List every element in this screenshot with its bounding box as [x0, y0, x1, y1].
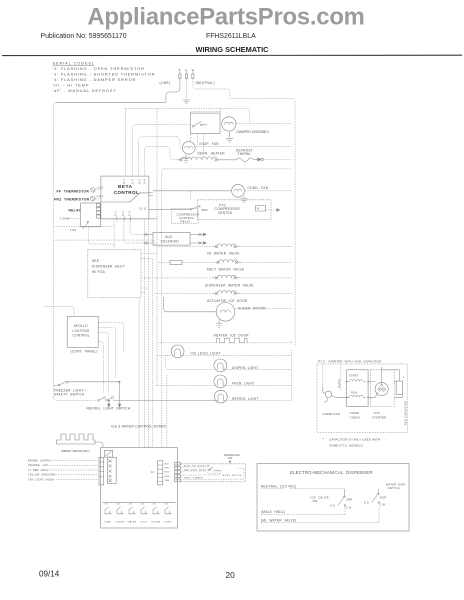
ptc inset dashed border: [317, 364, 407, 433]
lamp ice level light: [171, 345, 184, 358]
wire valve4 left: [153, 292, 213, 294]
wire aux in 2: [143, 242, 153, 244]
svg-text:N.O.: N.O.: [364, 501, 370, 504]
wire heater-ice left: [157, 342, 217, 344]
svg-text:COND. FAN: COND. FAN: [248, 186, 269, 190]
switch S2 crush: [116, 504, 125, 524]
svg-text:DISPENSER WATER VALVE: DISPENSER WATER VALVE: [205, 283, 254, 287]
overload protector OL1: [325, 391, 331, 397]
svg-text:'4' FLASHING - DAMPER ERROR: '4' FLASHING - DAMPER ERROR: [53, 77, 137, 82]
wire ice-level left feed: [157, 354, 175, 356]
pin labels J1 top: [124, 179, 146, 185]
svg-text:J-111: J-111: [96, 195, 103, 198]
svg-text:R: R: [257, 207, 259, 211]
wire cond-fan drop into compressor box: [190, 191, 192, 200]
svg-text:CBR: CBR: [346, 497, 352, 501]
svg-text:SWITCH: SWITCH: [388, 486, 400, 490]
switch S6 light: [164, 504, 172, 524]
wire left rail: [54, 102, 57, 397]
switch refrig door 2: [106, 399, 108, 401]
wire ptc left feed: [322, 364, 324, 386]
start device box: [347, 370, 368, 407]
wire refrig left to switches: [113, 400, 218, 402]
svg-text:G: G: [185, 68, 187, 72]
wire frzr left feed: [157, 384, 218, 386]
thermistor FRZ: [91, 196, 96, 201]
connector J1 strip: [99, 457, 104, 485]
svg-text:J-99: J-99: [70, 228, 77, 232]
svg-text:BLUE ICE DOOR SW.: BLUE ICE DOOR SW.: [184, 465, 211, 467]
svg-text:BROWN SUPPLY: BROWN SUPPLY: [28, 459, 51, 462]
svg-text:YELLOW (GROUND): YELLOW (GROUND): [28, 474, 56, 477]
switch refrig door 1: [98, 399, 100, 401]
pin labels J1 bottom: [116, 211, 132, 217]
wire cond fan left: [153, 190, 231, 192]
svg-text:P.T.C. STARTER WITH RUN CA: P.T.C. STARTER WITH RUN CAPACITOR: [318, 359, 382, 363]
power plug pin GROUND: [185, 68, 187, 79]
lamp dispenser light: [214, 359, 227, 372]
wire neutral dispenser: [261, 488, 344, 490]
wire damper switch drop: [197, 134, 199, 147]
solenoid coil water valve 1: [213, 244, 240, 247]
svg-text:(ML WATER VALVE): (ML WATER VALVE): [261, 518, 296, 522]
compressor control relay outline: [172, 209, 199, 224]
wire beta-feed 3 evap row: [138, 137, 176, 177]
wire male hndl: [261, 513, 345, 515]
svg-text:LIGHTING: LIGHTING: [73, 329, 90, 333]
svg-text:FFHS2611LBLA: FFHS2611LBLA: [206, 33, 256, 40]
resistor run winding: [350, 395, 364, 397]
MAIN-SCHEMATIC: [43, 68, 295, 448]
damper motor M1: [222, 117, 236, 131]
svg-text:TAN LIGHT DOOR SW.: TAN LIGHT DOOR SW.: [184, 468, 212, 471]
dispenser inset border: [257, 464, 409, 532]
svg-text:SW.: SW.: [228, 457, 233, 460]
connector J2 strip: [158, 461, 163, 485]
PTC-INSET: [317, 359, 407, 447]
svg-text:'0' FLASHING - OPEN THERMISTOR: '0' FLASHING - OPEN THERMISTOR: [53, 66, 145, 71]
wire auger left: [164, 297, 217, 312]
wire beta-feed 1: [125, 109, 127, 177]
svg-text:*: *: [323, 438, 325, 442]
solenoid coil water valve 2: [215, 260, 242, 263]
solenoid coil actuator ice door: [213, 291, 240, 294]
wire ground-pin stem: [185, 79, 187, 100]
svg-text:ICE & WATER CONTROL BOARD: ICE & WATER CONTROL BOARD: [111, 424, 167, 428]
beta internal partition: [101, 193, 149, 202]
switch compressor relay: [190, 208, 192, 210]
wire valve1 left: [157, 246, 213, 248]
connector edge pins: [174, 462, 180, 482]
wire neutral-pin to right bus: [193, 79, 295, 346]
wire beta bottom exit A: [113, 219, 115, 250]
svg-text:S6: S6: [165, 504, 169, 506]
connector J4 pins: [108, 457, 117, 483]
wire evap drop: [176, 137, 182, 148]
svg-text:'dF' - MANUAL DEFROST: 'dF' - MANUAL DEFROST: [53, 88, 117, 93]
lamp refrig light: [214, 390, 227, 403]
svg-text:TAN LIGHT (ADC): TAN LIGHT (ADC): [28, 479, 53, 482]
svg-text:(CONT. PANEL): (CONT. PANEL): [71, 350, 98, 354]
svg-text:S3: S3: [129, 504, 133, 506]
wire ice-level hook to dispen row: [166, 355, 214, 369]
svg-text:ICE LEVEL LIGHT: ICE LEVEL LIGHT: [191, 351, 221, 355]
svg-text:THERM.: THERM.: [238, 152, 252, 156]
svg-text:N.O.: N.O.: [330, 504, 336, 507]
DISPENSER-INSET: [257, 464, 409, 532]
svg-text:J1-4: J1-4: [145, 179, 147, 185]
wire heater-ice right to rail: [247, 340, 292, 343]
svg-text:WIRING SCHEMATIC: WIRING SCHEMATIC: [196, 45, 270, 54]
svg-text:APOLLO: APOLLO: [74, 324, 89, 328]
wire pcb row4: [141, 292, 146, 294]
wire beta bottom rail link: [101, 218, 157, 220]
switch cuber: [338, 489, 345, 508]
switch S1 cube: [104, 504, 112, 524]
wire dispen right to rail: [223, 368, 291, 370]
svg-text:SOME P.T.C. MODELS.: SOME P.T.C. MODELS.: [329, 444, 364, 448]
svg-text:DEFR. HEATER: DEFR. HEATER: [198, 151, 226, 155]
thermistor ambient: [104, 451, 112, 458]
wire membrane row4: [183, 478, 239, 480]
svg-text:SW.: SW.: [313, 499, 319, 503]
wire bus2 horizontal: [126, 109, 250, 124]
svg-text:J1-3: J1-3: [124, 179, 126, 185]
svg-text:CHECK: CHECK: [350, 415, 361, 419]
wire pcb row1: [141, 253, 157, 255]
solenoid coil dispenser water valve: [213, 275, 240, 278]
svg-text:OVERLOAD: OVERLOAD: [323, 412, 341, 416]
svg-text:LIGHT: LIGHT: [164, 522, 172, 524]
run capacitor C1: [396, 381, 402, 395]
node rail corner to switch: [54, 397, 57, 400]
wire beta bottom exit C to aux1: [130, 219, 143, 235]
svg-text:DISPENSER ASS'Y: DISPENSER ASS'Y: [92, 265, 126, 269]
legend SERIAL CODES: [53, 61, 156, 94]
svg-text:TAN: TAN: [165, 479, 170, 482]
svg-text:CUBE: CUBE: [104, 522, 111, 524]
inline connector valve2: [170, 260, 182, 264]
dispenser assembly pcb dashed box: [88, 250, 141, 298]
ptc starter dashed box: [371, 370, 395, 407]
node junction refrig drop: [108, 400, 110, 402]
svg-text:AUGER MOTOR: AUGER MOTOR: [238, 307, 266, 311]
evap fan motor M2: [182, 141, 195, 154]
switch S3 water: [128, 504, 137, 524]
svg-text:ELECTRO-MECHANICAL DISPENSER: ELECTRO-MECHANICAL DISPENSER: [290, 470, 373, 475]
wire beta-feed 2 damper row: [133, 125, 191, 177]
svg-text:GRN: GRN: [165, 476, 171, 478]
ICE-WATER-BOARD: [28, 424, 246, 528]
wire cond fan to right rail: [245, 190, 292, 192]
svg-text:FF THERMISTOR: FF THERMISTOR: [57, 189, 90, 193]
node dots start row: [346, 381, 348, 383]
svg-text:J-110: J-110: [96, 187, 103, 190]
svg-text:J-100#: J-100#: [60, 216, 70, 220]
wire membrane row3: [183, 474, 221, 476]
wire evap to right rail: [196, 145, 292, 147]
ground symbol power: [183, 100, 190, 104]
aux solenoid box: [153, 232, 190, 245]
svg-text:BLACK: BLACK: [338, 379, 341, 388]
svg-text:SOLENOID: SOLENOID: [161, 239, 180, 243]
ground symbol damper: [226, 131, 233, 142]
connector pins beta left: [97, 204, 101, 219]
node junction freezer drop: [119, 381, 121, 383]
wire apollo top: [43, 306, 74, 316]
svg-text:J1-5: J1-5: [133, 179, 135, 185]
wire aux out 2: [190, 242, 203, 244]
wire ptc mid feed: [340, 364, 342, 390]
svg-text:(MALE HNDL): (MALE HNDL): [261, 510, 285, 514]
svg-text:*: *: [403, 376, 405, 380]
switch membrane micro: [208, 467, 222, 471]
svg-text:ORANGE +12V: ORANGE +12V: [28, 464, 48, 467]
wire relay to beta: [149, 208, 190, 210]
wire valve4 right to rail: [240, 292, 291, 294]
svg-text:ACTUATOR ICE DOOR: ACTUATOR ICE DOOR: [207, 299, 248, 303]
svg-text:HEATER ICE DOOR: HEATER ICE DOOR: [214, 334, 250, 338]
wire frzr right to rail: [223, 384, 291, 386]
svg-text:J1-8: J1-8: [129, 211, 131, 217]
svg-text:S4: S4: [141, 504, 145, 506]
svg-text:MELT WATER VALVE: MELT WATER VALVE: [207, 267, 244, 271]
wire ribbon bundle from beta to board: [138, 298, 140, 448]
svg-text:GREY COMMON: GREY COMMON: [184, 478, 203, 480]
svg-text:RUN CAPACITOR: RUN CAPACITOR: [403, 401, 407, 425]
svg-text:NEUTRAL (110 VAC): NEUTRAL (110 VAC): [261, 484, 296, 488]
user interface comb symbol: [57, 434, 96, 444]
wire beta right exit j2: [149, 193, 154, 196]
wire long rail x157: [156, 109, 158, 386]
svg-text:WHT: WHT: [165, 468, 171, 470]
wire membrane row2: [183, 471, 222, 474]
wire pcb row2: [141, 258, 153, 262]
switch S5 filter: [152, 504, 161, 524]
board outline: [101, 447, 178, 528]
svg-text:'Hi' - HI TEMP: 'Hi' - HI TEMP: [53, 83, 90, 88]
ground symbol auger: [216, 320, 223, 328]
wire frz thermistor to beta: [95, 197, 101, 199]
condenser fan motor M3: [232, 184, 245, 197]
wire apollo right rows: [98, 323, 123, 353]
wire heater drop: [166, 146, 177, 159]
wire ml water valve: [261, 507, 379, 523]
switch water dispenser: [372, 489, 379, 505]
wire thermostat to right rail: [264, 159, 292, 161]
wire valve3 left: [141, 277, 213, 279]
svg-text:RED: RED: [165, 472, 170, 474]
svg-text:START: START: [349, 374, 359, 378]
svg-text:EVAP. FAN: EVAP. FAN: [200, 142, 220, 146]
svg-text:B: B: [179, 68, 181, 72]
svg-text:AMBIENT SENSOR (ADC): AMBIENT SENSOR (ADC): [61, 450, 90, 453]
ground symbol evap fan: [183, 155, 190, 163]
svg-text:WATER DISP.: WATER DISP.: [386, 482, 406, 486]
ptc starter disc: [375, 382, 388, 395]
damper door switch box: [190, 113, 220, 134]
svg-text:C.M.: C.M.: [346, 506, 352, 509]
wire beta-feed 4 heater row: [144, 146, 166, 176]
thermistor FF: [91, 188, 96, 193]
svg-text:FILTER: FILTER: [152, 522, 161, 524]
wire comb tail: [95, 442, 103, 447]
svg-text:CAPACITOR IS ONLY USED WITH: CAPACITOR IS ONLY USED WITH: [329, 438, 380, 442]
wire beta bottom exit B to aux2: [124, 219, 143, 243]
wire J-100 dashes: [71, 217, 81, 219]
wire refrig switch feed: [57, 400, 98, 402]
svg-text:MICRO SWITCH: MICRO SWITCH: [223, 475, 242, 477]
wire rail to valve1 row: [54, 240, 156, 247]
svg-text:RELAY: RELAY: [181, 220, 191, 224]
pin ticks beta bottom: [117, 217, 131, 221]
compressor run winding: [256, 206, 266, 212]
wire pcb row3: [141, 287, 149, 289]
svg-text:SAFETY SWITCH: SAFETY SWITCH: [54, 393, 85, 397]
wire relay bottom drop: [88, 227, 115, 247]
auger motor M4: [216, 303, 235, 322]
svg-text:J1-2: J1-2: [116, 211, 118, 217]
svg-text:RUN: RUN: [351, 391, 357, 395]
svg-text:S5: S5: [153, 504, 157, 506]
svg-text:J2: J2: [151, 470, 155, 474]
svg-text:J1-6: J1-6: [139, 179, 141, 185]
apollo lighting control box: [67, 316, 98, 347]
wire rung y169 to rail: [164, 168, 291, 170]
wire top bus left (line): [57, 101, 166, 103]
svg-text:LOCK: LOCK: [140, 522, 147, 524]
svg-text:J1-11: J1-11: [139, 207, 147, 211]
power plug pin NEUTRAL: [192, 68, 195, 79]
wire left bus to J99 row: [54, 225, 115, 227]
svg-text:WATER: WATER: [128, 521, 137, 524]
svg-text:CONTROL: CONTROL: [73, 334, 90, 338]
wire evap-top jog: [190, 112, 220, 141]
resistor defrost heater: [177, 157, 221, 160]
wire ff thermistor to beta: [95, 189, 101, 191]
node J-99 arrow: [83, 223, 89, 230]
svg-text:DOR: DOR: [380, 495, 387, 499]
svg-text:'3' FLASHING - SHORTED THERMIS: '3' FLASHING - SHORTED THERMISTOR: [53, 72, 156, 77]
switch S4 lock: [140, 504, 148, 524]
title rule: [2, 54, 462, 56]
svg-text:J1 RED (ADC): J1 RED (ADC): [28, 469, 48, 472]
wire board internal bus: [103, 501, 176, 503]
wire aux in 1: [143, 233, 153, 235]
svg-text:SERIAL CODES): SERIAL CODES): [53, 61, 95, 66]
svg-text:CRUSH: CRUSH: [116, 522, 125, 524]
pin labels J2: [165, 463, 171, 482]
svg-text:RED: RED: [202, 208, 208, 212]
membrane switch box: [181, 464, 246, 482]
svg-text:SEE: SEE: [92, 259, 99, 263]
node dots run row: [346, 397, 348, 399]
svg-text:VENTED: VENTED: [218, 211, 233, 215]
switch damper inside: [194, 122, 208, 127]
svg-text:09/14: 09/14: [39, 570, 60, 579]
wire auger right to rail: [235, 308, 292, 310]
wire membrane row1: [183, 466, 208, 468]
svg-text:J1-9: J1-9: [123, 211, 125, 217]
svg-text:I/S WATER VALVE: I/S WATER VALVE: [207, 252, 240, 256]
switch freezer door: [58, 384, 60, 386]
svg-text:(NEUTRAL): (NEUTRAL): [196, 81, 215, 85]
svg-text:AppliancePartsPros.com: AppliancePartsPros.com: [87, 3, 364, 30]
svg-text:20: 20: [226, 570, 236, 580]
wire ice-level right to rail: [180, 354, 291, 356]
svg-text:STARTER: STARTER: [372, 415, 387, 419]
compressor dashed box: [198, 200, 272, 220]
svg-text:FRZR. LIGHT: FRZR. LIGHT: [232, 381, 254, 385]
wire board to membrane: [237, 468, 244, 479]
wire compressor arrow out: [266, 209, 278, 211]
relay K1 box: [81, 203, 101, 227]
ground symbol cond fan: [241, 196, 248, 203]
svg-text:BLK: BLK: [165, 463, 170, 465]
wire line-pin to left bus: [166, 79, 180, 103]
svg-text:CONTROL: CONTROL: [114, 190, 140, 195]
wire valve2 right to rail: [242, 261, 292, 263]
lamp freezer light: [214, 375, 227, 388]
wire right rail lower: [291, 350, 293, 401]
svg-text:RELAY: RELAY: [69, 208, 82, 212]
wire valve3 right to rail: [240, 277, 291, 279]
svg-text:Publication No: 5995651170: Publication No: 5995651170: [41, 33, 127, 40]
op board BETA CONTROL: [101, 176, 149, 219]
svg-text:FRZ THERMISTOR: FRZ THERMISTOR: [54, 197, 90, 201]
svg-text:DAMPER ASSEMBLY: DAMPER ASSEMBLY: [237, 130, 271, 134]
svg-text:S2: S2: [117, 504, 121, 506]
wire damper box top feed: [220, 109, 222, 114]
svg-text:S1: S1: [105, 504, 109, 506]
svg-text:W/ PCB: W/ PCB: [92, 270, 105, 274]
wire freezer switch to board drop: [74, 382, 120, 404]
wire aux out 1: [190, 233, 203, 235]
svg-text:C.M.: C.M.: [380, 503, 386, 506]
defrost thermostat: [222, 158, 259, 162]
wire damper motor drop: [203, 134, 205, 160]
resistor heater ice door: [217, 338, 248, 343]
wire valve1 right to rail: [240, 246, 291, 248]
svg-text:(LINE): (LINE): [160, 81, 171, 85]
resistor start winding: [350, 380, 364, 382]
svg-text:W: W: [192, 68, 195, 72]
power plug pin LINE: [179, 68, 181, 79]
wire damper to right rail: [236, 123, 292, 125]
wire switch drop arrows: [108, 401, 110, 405]
wire refrig right to rail: [224, 400, 292, 402]
